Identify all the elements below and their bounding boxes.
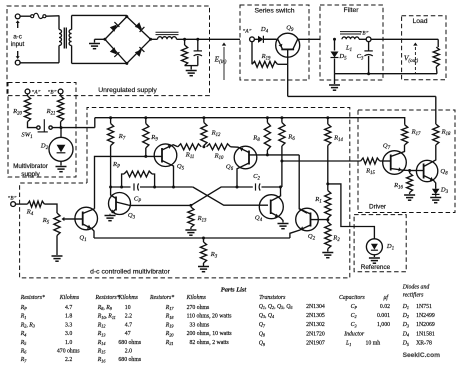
svg-text:R17: R17	[411, 129, 421, 137]
svg-text:R14: R14	[97, 340, 106, 346]
svg-text:D5: D5	[402, 341, 409, 347]
svg-text:1N1581: 1N1581	[416, 331, 435, 337]
svg-text:R19: R19	[165, 322, 175, 328]
svg-text:supply: supply	[21, 171, 40, 178]
svg-text:V(out): V(out)	[404, 54, 419, 65]
svg-text:470 ohms: 470 ohms	[57, 349, 80, 355]
svg-text:Filter: Filter	[343, 7, 359, 14]
svg-text:“B”: “B”	[48, 89, 57, 96]
svg-text:2N1305: 2N1305	[306, 313, 325, 319]
svg-text:Capacitors: Capacitors	[339, 295, 366, 301]
svg-text:input: input	[11, 41, 25, 48]
svg-text:L1: L1	[345, 45, 352, 53]
svg-text:2.0: 2.0	[125, 349, 132, 355]
svg-text:R2: R2	[332, 235, 340, 243]
svg-text:“A”: “A”	[32, 89, 41, 96]
svg-text:D5: D5	[338, 53, 347, 61]
svg-text:Driver: Driver	[369, 204, 387, 211]
svg-text:RP: RP	[112, 161, 120, 169]
svg-text:0.02: 0.02	[380, 304, 390, 310]
svg-text:R19: R19	[261, 53, 271, 61]
svg-text:CP: CP	[134, 196, 141, 204]
svg-text:R6: R6	[287, 134, 295, 142]
svg-text:CP: CP	[351, 304, 358, 310]
svg-text:Reference: Reference	[361, 264, 391, 271]
svg-text:R5: R5	[20, 340, 27, 346]
svg-text:R8, R9: R8, R9	[97, 305, 113, 311]
svg-text:R11: R11	[185, 152, 194, 160]
svg-text:E(in): E(in)	[214, 55, 227, 66]
svg-text:680 ohms: 680 ohms	[118, 340, 141, 346]
svg-text:3.3: 3.3	[65, 322, 72, 328]
svg-text:R21: R21	[165, 340, 174, 346]
svg-text:1N2069: 1N2069	[416, 322, 435, 328]
svg-text:“A”: “A”	[243, 28, 252, 35]
svg-text:C2: C2	[351, 313, 357, 319]
svg-text:R13: R13	[197, 215, 207, 223]
svg-text:D4: D4	[260, 26, 269, 34]
svg-text:Q8: Q8	[259, 331, 266, 337]
svg-text:R20: R20	[165, 331, 175, 337]
svg-text:“B”: “B”	[8, 195, 17, 202]
svg-text:Inductor: Inductor	[343, 331, 365, 337]
svg-text:1N751: 1N751	[416, 304, 432, 310]
svg-text:Q9: Q9	[286, 25, 294, 33]
svg-text:D1: D1	[402, 304, 409, 310]
svg-text:47: 47	[125, 331, 131, 337]
svg-text:L1: L1	[345, 341, 351, 347]
svg-text:R9: R9	[150, 134, 158, 142]
svg-text:“B”: “B”	[360, 30, 369, 37]
svg-text:Resistors*: Resistors*	[95, 295, 120, 301]
svg-text:Diodes and: Diodes and	[402, 285, 430, 291]
svg-text:Kilohms: Kilohms	[59, 295, 80, 301]
svg-text:D1: D1	[386, 243, 394, 251]
svg-text:4.7: 4.7	[125, 322, 132, 328]
svg-text:R5: R5	[42, 217, 50, 225]
svg-text:2.2: 2.2	[125, 314, 132, 320]
svg-text:R7: R7	[20, 357, 28, 363]
svg-text:Kilohms: Kilohms	[186, 295, 207, 301]
svg-text:R4: R4	[26, 209, 34, 217]
svg-text:Q3, Q4: Q3, Q4	[259, 313, 274, 319]
svg-text:R10, R11: R10, R11	[97, 314, 116, 320]
svg-text:10 mh: 10 mh	[366, 341, 381, 347]
svg-text:Parts List: Parts List	[221, 287, 247, 294]
svg-text:R3: R3	[210, 251, 218, 259]
svg-text:R7: R7	[118, 133, 126, 141]
svg-text:D3: D3	[402, 322, 409, 328]
svg-text:D4: D4	[402, 331, 409, 337]
svg-text:R21: R21	[46, 108, 56, 116]
svg-text:Q9: Q9	[259, 341, 266, 347]
svg-text:2.2: 2.2	[65, 357, 72, 363]
svg-text:1.0: 1.0	[65, 340, 72, 346]
svg-text:Transistors: Transistors	[259, 295, 286, 301]
svg-text:R18: R18	[165, 314, 175, 320]
svg-text:C2: C2	[253, 173, 260, 181]
svg-text:Resistors*: Resistors*	[20, 295, 45, 301]
svg-text:R6: R6	[20, 349, 28, 355]
svg-text:R4: R4	[20, 331, 27, 337]
svg-text:1,000: 1,000	[377, 322, 390, 328]
svg-text:Q8: Q8	[440, 168, 448, 176]
svg-text:Q7: Q7	[383, 143, 391, 151]
svg-text:2N1304: 2N1304	[306, 304, 325, 310]
svg-text:Multivibrator: Multivibrator	[13, 163, 49, 170]
svg-text:2N1907: 2N1907	[306, 341, 325, 347]
svg-text:a-c: a-c	[13, 34, 22, 41]
svg-text:1.8: 1.8	[65, 314, 72, 320]
svg-text:110 ohms, 20 watts: 110 ohms, 20 watts	[187, 314, 233, 320]
svg-text:Unregulated supply: Unregulated supply	[98, 87, 157, 94]
svg-text:μf: μf	[384, 294, 390, 301]
svg-text:200 ohms, 10 watts: 200 ohms, 10 watts	[187, 331, 233, 337]
svg-text:Q2: Q2	[308, 233, 316, 241]
svg-text:d-c controlled multivibrator: d-c controlled multivibrator	[90, 269, 170, 276]
svg-text:2N1720: 2N1720	[306, 331, 325, 337]
svg-text:XR-78: XR-78	[416, 341, 432, 347]
svg-text:82 ohms, 2 watts: 82 ohms, 2 watts	[187, 340, 230, 346]
svg-text:Q1, Q2, Q5, Q6: Q1, Q2, Q5, Q6	[259, 304, 294, 310]
svg-text:R2, R3: R2, R3	[20, 322, 35, 328]
svg-text:680 ohms: 680 ohms	[118, 357, 141, 363]
svg-text:Q7: Q7	[259, 322, 266, 328]
svg-text:R18: R18	[441, 129, 451, 137]
svg-text:270 ohms: 270 ohms	[187, 305, 210, 311]
svg-text:33 ohms: 33 ohms	[187, 322, 210, 328]
svg-text:R1: R1	[20, 314, 27, 320]
svg-text:Q3: Q3	[128, 212, 136, 220]
svg-text:R15: R15	[365, 168, 375, 176]
svg-text:Resistors*: Resistors*	[149, 295, 174, 301]
svg-text:R10: R10	[214, 153, 224, 161]
svg-text:R16: R16	[393, 182, 403, 190]
svg-text:Series switch: Series switch	[254, 8, 294, 15]
svg-text:R13: R13	[97, 331, 106, 337]
svg-text:Load: Load	[412, 18, 427, 25]
svg-text:R14: R14	[333, 135, 343, 143]
svg-text:R12: R12	[211, 130, 221, 138]
svg-text:0.001: 0.001	[377, 313, 390, 319]
svg-text:D3: D3	[440, 187, 449, 195]
svg-text:R12: R12	[97, 322, 106, 328]
svg-text:RP: RP	[20, 305, 28, 311]
svg-text:Q1: Q1	[79, 235, 86, 243]
svg-text:R8: R8	[252, 135, 260, 143]
svg-text:R17: R17	[165, 305, 175, 311]
svg-text:Kilohms: Kilohms	[118, 295, 139, 301]
svg-text:rectifiers: rectifiers	[403, 291, 424, 298]
svg-text:R16: R16	[97, 357, 107, 363]
svg-text:4.7: 4.7	[65, 305, 72, 311]
svg-text:Q6: Q6	[226, 164, 234, 172]
svg-text:Q5: Q5	[177, 163, 185, 171]
svg-text:D2: D2	[40, 143, 49, 151]
svg-text:2N1302: 2N1302	[306, 322, 325, 328]
svg-text:R20: R20	[12, 108, 22, 116]
svg-text:10: 10	[125, 305, 131, 311]
svg-text:R1: R1	[314, 196, 321, 204]
svg-text:C3: C3	[357, 53, 364, 61]
svg-text:1N2499: 1N2499	[416, 313, 435, 319]
svg-text:Q4: Q4	[255, 215, 263, 223]
svg-text:D2: D2	[402, 313, 409, 319]
svg-text:C3: C3	[351, 322, 357, 328]
svg-text:SW1: SW1	[21, 131, 32, 139]
svg-text:SeekIC.com: SeekIC.com	[403, 352, 441, 359]
svg-text:3.0: 3.0	[65, 331, 72, 337]
svg-text:R15: R15	[97, 349, 106, 355]
